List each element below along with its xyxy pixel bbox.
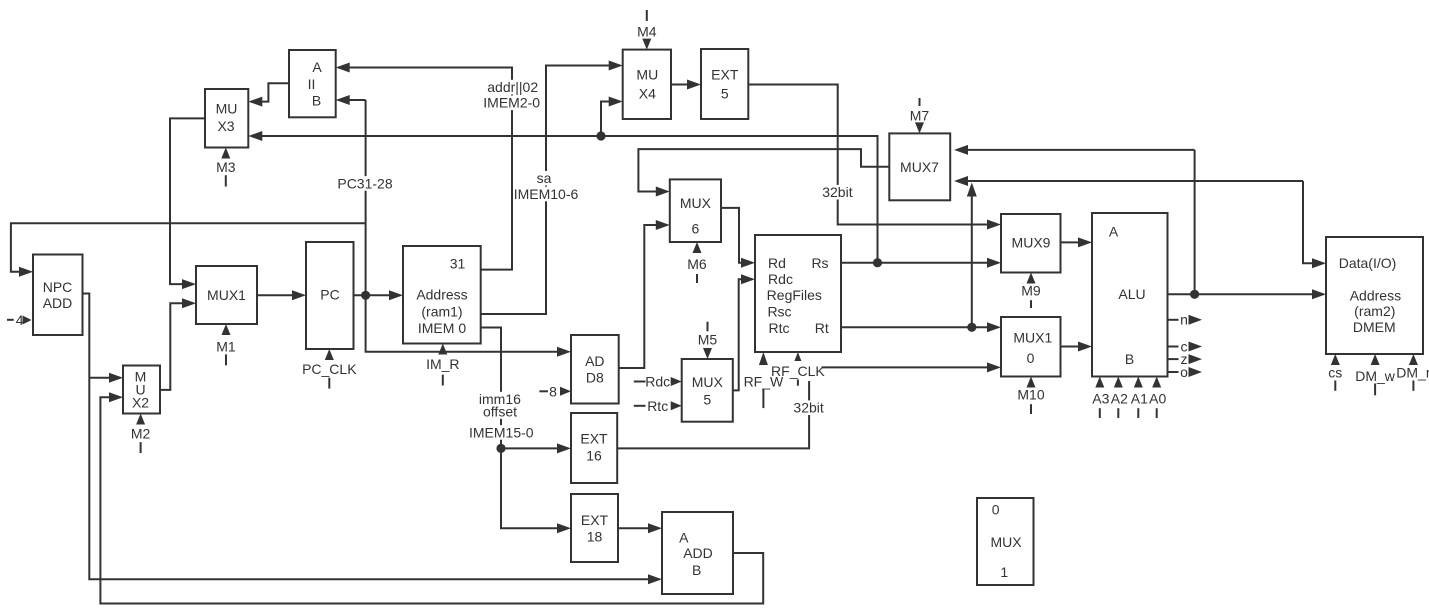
- svg-text:M10: M10: [1017, 386, 1044, 402]
- svg-text:RF_CLK: RF_CLK: [771, 363, 825, 379]
- svg-text:A: A: [679, 529, 689, 545]
- svg-text:MUX7: MUX7: [900, 159, 939, 175]
- svg-text:MU: MU: [636, 67, 658, 83]
- svg-text:IMEM2-0: IMEM2-0: [483, 95, 540, 111]
- svg-text:MUX: MUX: [680, 195, 712, 211]
- svg-text:32bit: 32bit: [822, 184, 852, 200]
- svg-text:MUX1: MUX1: [1013, 329, 1052, 345]
- svg-text:ALU: ALU: [1118, 286, 1145, 302]
- svg-text:X2: X2: [132, 395, 149, 411]
- svg-text:IM_R: IM_R: [426, 356, 459, 372]
- svg-text:IMEM 0: IMEM 0: [418, 320, 466, 336]
- svg-text:1: 1: [1000, 564, 1008, 580]
- svg-text:X4: X4: [639, 85, 656, 101]
- svg-text:Rsc: Rsc: [767, 304, 791, 320]
- svg-text:Rtc: Rtc: [769, 320, 790, 336]
- svg-text:o: o: [1180, 364, 1188, 380]
- svg-text:DM_w: DM_w: [1355, 368, 1396, 384]
- svg-text:Address: Address: [416, 287, 467, 303]
- svg-text:M1: M1: [216, 339, 236, 355]
- svg-text:X3: X3: [217, 118, 234, 134]
- svg-text:0: 0: [992, 501, 1000, 517]
- svg-text:8: 8: [549, 384, 557, 400]
- svg-text:A: A: [1109, 223, 1119, 239]
- svg-text:(ram1): (ram1): [421, 303, 462, 319]
- svg-text:M7: M7: [910, 108, 930, 124]
- svg-text:IMEM15-0: IMEM15-0: [469, 424, 534, 440]
- svg-text:31: 31: [450, 256, 466, 272]
- svg-text:MUX1: MUX1: [207, 287, 246, 303]
- svg-text:ADD: ADD: [43, 295, 73, 311]
- svg-text:DMEM: DMEM: [1353, 319, 1396, 335]
- svg-text:RegFiles: RegFiles: [767, 287, 822, 303]
- svg-text:A3: A3: [1092, 390, 1109, 406]
- svg-text:MU: MU: [216, 101, 238, 117]
- svg-text:EXT: EXT: [580, 431, 608, 447]
- svg-text:M5: M5: [698, 332, 718, 348]
- svg-text:6: 6: [692, 221, 700, 237]
- svg-text:Data(I/O): Data(I/O): [1339, 255, 1397, 271]
- svg-text:0: 0: [1027, 350, 1035, 366]
- svg-text:PC31-28: PC31-28: [337, 175, 392, 191]
- svg-text:16: 16: [586, 447, 602, 463]
- svg-text:EXT: EXT: [711, 67, 739, 83]
- svg-text:PC_CLK: PC_CLK: [302, 361, 357, 377]
- svg-text:M3: M3: [216, 159, 236, 175]
- svg-text:Rdc: Rdc: [645, 374, 670, 390]
- svg-text:IMEM10-6: IMEM10-6: [514, 186, 579, 202]
- svg-text:ADD: ADD: [683, 545, 713, 561]
- svg-text:32bit: 32bit: [793, 400, 823, 416]
- svg-text:AD: AD: [585, 353, 604, 369]
- svg-text:Rt: Rt: [815, 320, 829, 336]
- svg-text:MUX: MUX: [990, 534, 1022, 550]
- svg-text:addr||02: addr||02: [487, 79, 538, 95]
- svg-text:MUX9: MUX9: [1012, 234, 1051, 250]
- svg-text:A1: A1: [1131, 390, 1148, 406]
- svg-text:D8: D8: [586, 369, 604, 385]
- svg-text:5: 5: [703, 391, 711, 407]
- svg-text:M9: M9: [1021, 283, 1041, 299]
- svg-text:Rdc: Rdc: [768, 271, 793, 287]
- svg-text:M6: M6: [687, 256, 707, 272]
- svg-text:Rs: Rs: [811, 255, 828, 271]
- svg-text:(ram2): (ram2): [1354, 303, 1395, 319]
- svg-text:NPC: NPC: [43, 279, 73, 295]
- svg-text:M2: M2: [131, 425, 151, 441]
- svg-text:B: B: [692, 562, 701, 578]
- svg-text:DM_r: DM_r: [1396, 365, 1429, 381]
- svg-text:II: II: [308, 76, 316, 92]
- svg-text:EXT: EXT: [581, 512, 609, 528]
- svg-text:5: 5: [721, 85, 729, 101]
- svg-text:18: 18: [587, 529, 603, 545]
- svg-text:A: A: [312, 59, 322, 75]
- svg-text:B: B: [1125, 351, 1134, 367]
- svg-text:A0: A0: [1149, 390, 1166, 406]
- svg-text:A2: A2: [1111, 390, 1128, 406]
- svg-text:MUX: MUX: [692, 374, 724, 390]
- svg-text:B: B: [312, 93, 321, 109]
- svg-text:M4: M4: [637, 24, 657, 40]
- svg-text:Address: Address: [1350, 288, 1401, 304]
- svg-text:Rd: Rd: [768, 255, 786, 271]
- svg-text:PC: PC: [320, 287, 339, 303]
- svg-text:offset: offset: [483, 404, 517, 420]
- svg-text:cs: cs: [1328, 365, 1342, 381]
- svg-text:Rtc: Rtc: [647, 398, 668, 414]
- svg-text:n: n: [1180, 312, 1188, 328]
- svg-text:sa: sa: [537, 170, 552, 186]
